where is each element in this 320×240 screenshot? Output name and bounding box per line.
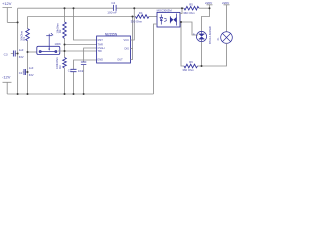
wire R5 right to 220V terminal junction — [199, 7, 210, 9]
resistor R4 (horizontal, OUT to opto) — [136, 15, 150, 19]
svg-text:C1: C1 — [19, 71, 23, 75]
svg-text:THR: THR — [98, 43, 103, 47]
wire OUT net horizontal y16.5 — [28, 16, 136, 18]
svg-text:1uF: 1uF — [19, 48, 24, 52]
svg-text:330 Ohm: 330 Ohm — [131, 20, 143, 24]
node -12V terminal — [3, 82, 12, 94]
svg-text:1uF: 1uF — [29, 66, 34, 70]
junction dots — [17, 7, 211, 95]
potentiometer wiper mark — [48, 34, 50, 41]
svg-text:NE555N: NE555N — [105, 32, 118, 36]
wire VCC riser to top rail — [131, 8, 135, 40]
svg-text:GND: GND — [97, 58, 103, 62]
resistor R1 (vertical, with leads) — [27, 17, 29, 95]
resistor R3 (vertical, below R2) — [63, 58, 67, 69]
wire DIS stub — [131, 48, 134, 50]
svg-text:X1: X1 — [217, 37, 220, 41]
optocoupler U2 MOC3063M box — [157, 12, 180, 27]
potentiometer R7 body — [37, 41, 60, 55]
lamp X1 — [221, 32, 233, 44]
node +12V terminal — [3, 8, 18, 23]
svg-text:OUT: OUT — [117, 58, 123, 62]
svg-text:-12V: -12V — [2, 75, 11, 80]
resistor R5 (horizontal, in top rail) — [184, 6, 199, 10]
svg-text:VCC: VCC — [124, 38, 130, 42]
node 220V terminal 2 — [224, 5, 230, 32]
capacitor C4 plates — [114, 5, 117, 11]
svg-text:63V: 63V — [29, 73, 34, 77]
svg-text:63V: 63V — [19, 55, 24, 59]
wire RST riser from top rail — [74, 8, 97, 40]
wire triac gate lead — [196, 34, 198, 36]
svg-text:C2: C2 — [68, 68, 72, 72]
wire opto top-right pin riser to top rail — [180, 8, 182, 13]
wire lamp bottom to triac bottom — [202, 43, 227, 66]
op-amp U1 NE555N box — [97, 36, 131, 63]
svg-text:MOC3063M: MOC3063M — [157, 9, 173, 13]
svg-text:10kOhm: 10kOhm — [19, 31, 23, 41]
svg-text:100kOhm: 100kOhm — [55, 57, 59, 69]
svg-text:DIS: DIS — [125, 47, 130, 51]
svg-text:100K: 100K — [55, 42, 61, 46]
svg-text:C4: C4 — [111, 1, 115, 5]
wire top rail left segment (+12V to C4) — [18, 7, 114, 9]
wire pot right to TRI pin — [58, 50, 97, 52]
potentiometer R7 wire from column — [28, 51, 38, 53]
U2 internal LED — [160, 15, 167, 25]
svg-text:BTA12-600SW: BTA12-600SW — [208, 26, 212, 44]
triac T1 — [196, 31, 206, 41]
svg-text:R4: R4 — [139, 11, 143, 15]
svg-text:220V: 220V — [205, 1, 213, 5]
wire opto bottom-right to R6 riser — [181, 22, 184, 66]
wire terminal1 down to triac MT2 — [202, 8, 210, 31]
resistor R2 (vertical from top rail) — [64, 8, 66, 57]
capacitor C5 (CVolt to ground rail) — [84, 48, 97, 94]
wire top rail right segment (C4 to R5) — [117, 7, 185, 9]
svg-text:+12V: +12V — [2, 1, 12, 6]
svg-text:360 Ohm: 360 Ohm — [183, 11, 195, 15]
capacitor C1 (left of column x27.5, open pin) — [23, 71, 28, 73]
svg-text:C3: C3 — [4, 52, 8, 56]
wire THR from R2R3 junction — [65, 44, 97, 46]
wire left vertical rail x18 — [17, 8, 19, 94]
svg-text:R5: R5 — [189, 2, 193, 6]
wire opto bottom-left pin (GND return) — [154, 24, 158, 94]
svg-text:360 Ohm: 360 Ohm — [182, 68, 194, 72]
node 220V terminal 1 — [207, 5, 213, 8]
svg-text:RST: RST — [98, 38, 104, 42]
wire ground rail — [7, 93, 153, 95]
svg-text:TRI: TRI — [98, 49, 102, 53]
capacitor C2 plates — [71, 69, 77, 71]
svg-text:R6: R6 — [189, 60, 193, 64]
svg-text:100 nF: 100 nF — [107, 11, 117, 15]
wire triac MT1 down — [201, 42, 203, 66]
svg-text:10kOhm: 10kOhm — [55, 23, 59, 34]
wire GND (IC left pin to ground rail) — [74, 60, 97, 94]
U2 internal triac — [170, 14, 176, 26]
svg-text:220V: 220V — [222, 1, 230, 5]
wire OUT riser to y16.5 — [131, 17, 133, 60]
capacitor C3 (left of rail, open pin) — [11, 53, 18, 55]
wire opto bottom-right pin to triac gate — [180, 22, 196, 35]
resistor R6 (horizontal, gate return) — [184, 64, 198, 68]
